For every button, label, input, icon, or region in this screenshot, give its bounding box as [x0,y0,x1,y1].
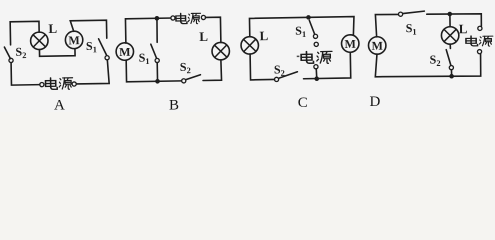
switch S2 (D) pivot [449,66,453,70]
wire: D lamp branch upper [449,14,451,27]
wire: A top-right segment [70,20,107,39]
wire: S1 branch lower (B) [156,63,158,82]
battery terminal left (B) [171,16,175,20]
wire: D left side [375,14,398,36]
switch S1 (C) blade [309,20,314,34]
svg-text:D: D [370,94,381,110]
node bottom junction (B) [155,79,160,84]
node bottom junction (D) [449,74,454,79]
svg-text:L: L [48,21,57,36]
lamp L (B) [212,42,230,60]
wire: A top-left segment [10,21,39,44]
switch S2 (A) blade [4,47,10,59]
label 电源 (B) [176,13,187,23]
node top junction (C) [306,15,311,20]
label 电源 (D) [466,36,478,46]
switch S1 (C) pivot [313,34,317,38]
switch S1 (A) pivot [105,56,109,60]
battery terminal bottom (D) [477,50,481,54]
switch S2 (B) pivot [182,79,186,83]
wire: D motor bottom + bottom wire [375,53,481,76]
label 电源 (C) [301,51,313,63]
switch S1 (D) blade [403,11,425,13]
lamp L (D) [441,27,459,45]
wire: B right side down [203,60,222,81]
svg-text:B: B [169,98,179,113]
wire: D lamp bottom stub [449,44,451,48]
battery terminal top (D) [478,26,482,30]
motor M (A) [65,31,83,49]
svg-text:L: L [459,21,468,36]
svg-text:A: A [54,98,65,113]
wire: C battery to bottom [315,69,317,78]
node top junction (B) [155,16,160,21]
motor M (C) [341,35,359,53]
lamp L (C) [241,37,259,55]
svg-text:C: C [298,95,308,111]
switch S1 (D) pivot [398,12,402,16]
wire: C bottom right [303,52,351,79]
svg-text:L: L [259,28,268,43]
switch S2 (C) pivot [274,77,278,81]
motor M (D) [368,37,386,55]
svg-text:L: L [199,29,208,44]
label 电源 (A) [45,78,57,90]
switch S2 (D) blade [446,50,451,66]
wire: B left side [125,18,173,43]
switch S2 (B) blade [185,75,200,80]
node top junction (D) [447,12,452,17]
switch S1 (B) pivot [155,58,159,62]
battery terminal left (A) [40,82,44,86]
wire: D pivot to bottom [450,70,452,77]
switch S1 (A) blade [99,39,107,56]
wire: B motor bottom to corner [126,60,181,82]
wire: C bottom left [250,54,274,80]
battery terminal right (A) [72,82,76,86]
battery terminal bottom (C) [314,65,318,69]
battery terminal right (B) [201,15,205,19]
wire: A bottom-left segment [11,62,40,85]
wire: D top right [427,14,482,27]
motor M (B) [116,43,134,61]
wire: A right side down [76,60,109,84]
wire: A series U link lamp-motor [39,49,75,56]
node bottom junction (C) [314,76,319,81]
switch S2 (C) blade [278,72,297,79]
battery terminal top (C) [314,42,318,46]
switch S1 (B) blade [151,44,157,58]
wire: C top [249,17,354,38]
lamp L (A) [30,32,48,50]
wire: B top-right [206,17,221,43]
wire: S1 branch upper (B) [156,18,159,42]
switch S2 (A) pivot [9,58,13,62]
stray mark [297,56,300,58]
